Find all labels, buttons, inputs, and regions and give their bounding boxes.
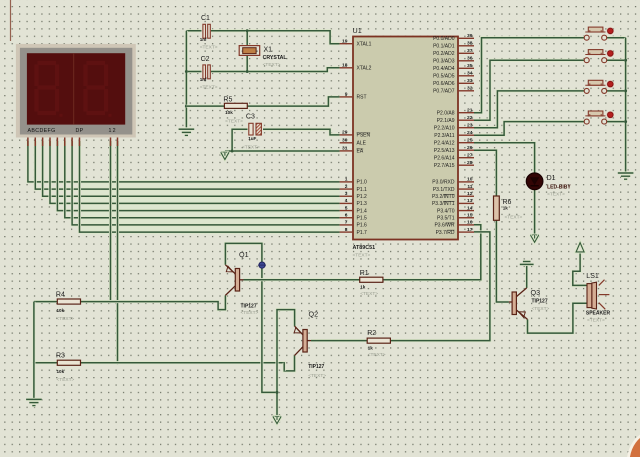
wire R3 left <box>34 361 57 364</box>
svg-text:12: 12 <box>109 128 117 134</box>
wire display common 1 to R4 node <box>109 141 112 302</box>
wire R6 to Q3 base <box>496 220 509 302</box>
LED D1 <box>526 173 571 198</box>
wire C3 left leg <box>232 129 249 151</box>
crystal X1 <box>239 46 287 69</box>
svg-text:4: 4 <box>345 198 348 204</box>
wire R1 right to P3.6 <box>383 225 481 280</box>
node junction pin2 R3 <box>116 361 119 364</box>
svg-text:P2.6/A14: P2.6/A14 <box>434 156 455 162</box>
svg-text:7: 7 <box>345 220 348 226</box>
svg-text:P3.6/WR: P3.6/WR <box>434 223 454 229</box>
wire speaker top to power <box>573 252 587 286</box>
svg-text:R1: R1 <box>360 270 369 277</box>
svg-text:P0.7/AD7: P0.7/AD7 <box>433 89 455 95</box>
wire R5 to RST <box>247 97 339 106</box>
svg-text:P2.3/A11: P2.3/A11 <box>434 133 454 139</box>
push button SW2 <box>584 50 614 63</box>
sheet border edge <box>10 0 12 41</box>
wire button 4 to P2.3 <box>474 122 584 136</box>
svg-text:1uF: 1uF <box>248 136 256 141</box>
svg-text:P3.2/INT0: P3.2/INT0 <box>432 194 455 200</box>
svg-text:30: 30 <box>342 138 348 144</box>
transistor Q1 TIP127 <box>225 250 258 316</box>
svg-text:P0.1/AD1: P0.1/AD1 <box>433 44 455 50</box>
wire P2.5 to R6 <box>474 150 496 196</box>
node junction left rail C2 <box>185 70 188 73</box>
svg-text:Q2: Q2 <box>309 310 319 319</box>
svg-text:P0.3/AD3: P0.3/AD3 <box>433 59 455 65</box>
svg-text:P2.4/A12: P2.4/A12 <box>434 141 455 147</box>
resistor R4 <box>56 292 81 322</box>
push button SW4 <box>584 111 614 124</box>
node junction R3 vertical <box>32 361 35 364</box>
svg-text:13: 13 <box>467 198 473 204</box>
svg-text:P3.3/INT1: P3.3/INT1 <box>432 201 455 207</box>
wire display common 2 to R3 node <box>116 141 119 363</box>
svg-text:18: 18 <box>342 63 348 69</box>
svg-text:27: 27 <box>467 153 473 159</box>
node junction pin1 R4 <box>109 300 112 303</box>
svg-text:1nf: 1nf <box>200 77 207 82</box>
svg-text:ALE: ALE <box>357 141 367 147</box>
push button SW1 <box>584 27 614 40</box>
svg-text:Q3: Q3 <box>531 288 541 297</box>
svg-text:25: 25 <box>467 138 473 144</box>
wire R4 left <box>34 300 57 303</box>
svg-text:8: 8 <box>345 227 348 233</box>
wire EA line <box>225 149 340 152</box>
svg-text:SPEAKER: SPEAKER <box>586 311 611 317</box>
svg-text:6: 6 <box>345 213 348 219</box>
wire Q1 base to R1 <box>244 278 360 281</box>
svg-text:P1.1: P1.1 <box>357 187 368 193</box>
svg-text:<TEXT>: <TEXT> <box>547 192 565 198</box>
wire R4 right to Q1 collector <box>81 295 226 309</box>
resistor R1 <box>360 270 383 297</box>
svg-text:<TEXT>: <TEXT> <box>360 291 378 297</box>
svg-text:P0.6/AD6: P0.6/AD6 <box>433 81 455 87</box>
microcontroller U1 AT89C51 <box>353 26 459 259</box>
svg-text:C2: C2 <box>201 56 210 63</box>
svg-text:17: 17 <box>467 227 473 233</box>
svg-text:5: 5 <box>345 205 348 211</box>
svg-text:R3: R3 <box>56 352 65 359</box>
svg-text:P2.7/A15: P2.7/A15 <box>434 163 455 169</box>
ground G3 button bus <box>618 171 634 174</box>
svg-text:<TEXT>: <TEXT> <box>532 306 550 312</box>
wire Q2 base to R2 <box>311 339 367 342</box>
svg-text:<TEXT>: <TEXT> <box>353 253 371 259</box>
wire display segment E to P1.4 <box>57 141 339 211</box>
svg-text:11: 11 <box>467 184 472 190</box>
watermark logo corner <box>628 433 640 457</box>
svg-text:14: 14 <box>467 205 473 211</box>
svg-text:36: 36 <box>467 56 473 62</box>
svg-text:P2.5/A13: P2.5/A13 <box>434 148 455 154</box>
svg-text:TIP127: TIP127 <box>532 299 548 305</box>
svg-text:<TEXT>: <TEXT> <box>308 373 326 379</box>
svg-text:32: 32 <box>467 86 473 92</box>
display digit 1 segments <box>37 63 63 117</box>
ground G4 above Q3 <box>523 260 531 263</box>
svg-text:P3.1/TXD: P3.1/TXD <box>433 187 455 193</box>
svg-text:1k: 1k <box>503 205 509 210</box>
wire Q3 collector to speaker <box>528 303 588 333</box>
svg-text:P1.2: P1.2 <box>357 194 368 200</box>
wire ground chain capacitors <box>185 31 188 128</box>
wire button 4 right to bus <box>607 120 626 123</box>
svg-text:P0.2/AD2: P0.2/AD2 <box>433 51 455 57</box>
svg-text:37: 37 <box>467 48 473 54</box>
ground G1 below capacitors <box>179 128 195 131</box>
svg-text:P1.3: P1.3 <box>357 201 368 207</box>
svg-text:2: 2 <box>345 184 348 190</box>
svg-text:P3.7/RD: P3.7/RD <box>436 230 455 236</box>
svg-text:D1: D1 <box>547 175 556 182</box>
wire button 3 to P2.2 <box>474 91 584 128</box>
svg-text:23: 23 <box>467 123 473 129</box>
resistor R5 <box>223 97 247 125</box>
wire X1 top stub <box>246 31 249 46</box>
wire button 1 to P2.0 <box>474 38 584 113</box>
svg-text:P3.4/T0: P3.4/T0 <box>437 208 455 214</box>
node junction C3 EA line <box>231 150 234 153</box>
wire R5 left <box>186 105 224 108</box>
wire R2 right to P3.7 <box>390 232 490 341</box>
wire Q3 emitter to ground <box>525 264 528 288</box>
node junction emitter chain <box>276 391 279 394</box>
resistor R6 vertical <box>494 196 523 221</box>
svg-text:P0.5/AD5: P0.5/AD5 <box>433 74 455 80</box>
svg-text:XTAL1: XTAL1 <box>357 42 372 48</box>
svg-text:DP: DP <box>76 128 84 134</box>
display digit 2 segments <box>86 63 112 117</box>
wire R3 right to Q2 collector <box>81 356 295 371</box>
svg-text:22: 22 <box>467 115 473 121</box>
svg-text:12: 12 <box>467 191 473 197</box>
svg-text:TIP127: TIP127 <box>308 364 324 370</box>
wire display segment B to P1.1 <box>35 141 339 189</box>
svg-text:3: 3 <box>345 191 348 197</box>
svg-text:1k: 1k <box>368 345 374 350</box>
svg-text:10: 10 <box>467 177 473 183</box>
svg-text:AT89C51: AT89C51 <box>353 245 376 251</box>
svg-text:33: 33 <box>467 78 473 84</box>
svg-text:16: 16 <box>467 220 473 226</box>
wire C1 to XTAL1 <box>186 31 339 44</box>
svg-text:31: 31 <box>342 146 348 152</box>
wire Q2 collector step <box>283 363 286 371</box>
wire display segment A to P1.0 <box>28 141 340 182</box>
wire D1 cathode down <box>533 190 536 236</box>
svg-text:<TEXT>: <TEXT> <box>242 144 260 150</box>
svg-text:1nf: 1nf <box>200 37 207 42</box>
svg-text:1: 1 <box>345 177 348 183</box>
push button SW3 <box>584 80 614 93</box>
svg-text:TIP127: TIP127 <box>241 303 257 309</box>
svg-text:<TEXT>: <TEXT> <box>200 45 218 51</box>
svg-text:10k: 10k <box>57 369 65 374</box>
capacitor C3 polarized <box>242 114 263 151</box>
wire button 2 to P2.1 <box>474 60 584 120</box>
svg-text:38: 38 <box>467 41 473 47</box>
svg-text:<TEXT>: <TEXT> <box>225 118 243 124</box>
svg-text:EA: EA <box>357 149 364 155</box>
svg-text:XTAL2: XTAL2 <box>357 66 372 72</box>
svg-text:P3.0/RXD: P3.0/RXD <box>432 180 455 186</box>
svg-text:<TEXT>: <TEXT> <box>587 318 605 324</box>
wire resistor ground chain <box>32 302 35 400</box>
svg-text:<TEXT>: <TEXT> <box>241 310 259 316</box>
svg-text:<TEXT>: <TEXT> <box>368 352 386 358</box>
svg-text:15: 15 <box>467 213 473 219</box>
wire button 3 right to bus <box>607 89 626 92</box>
chip right pin stubs and numbers <box>458 37 474 39</box>
wire Q2 emitter loop <box>277 310 295 417</box>
svg-text:R2: R2 <box>367 330 376 337</box>
svg-text:19: 19 <box>342 39 348 45</box>
svg-text:9: 9 <box>345 92 348 98</box>
speaker LS1 <box>586 273 611 324</box>
svg-text:<TEXT>: <TEXT> <box>263 62 281 68</box>
wire display segment D to P1.3 <box>50 141 340 203</box>
svg-text:P0.4/AD4: P0.4/AD4 <box>433 66 455 72</box>
wire display segment G to P1.6 <box>72 141 340 225</box>
svg-text:10k: 10k <box>57 308 65 313</box>
power terminal arrow up <box>576 243 584 252</box>
svg-text:P1.4: P1.4 <box>357 208 368 214</box>
resistor R3 <box>56 352 81 383</box>
wire display segment C to P1.2 <box>43 141 340 196</box>
svg-text:P2.0/A8: P2.0/A8 <box>437 111 455 117</box>
svg-text:RST: RST <box>357 95 367 101</box>
svg-text:X1: X1 <box>264 47 273 54</box>
svg-text:39: 39 <box>467 33 473 39</box>
svg-text:10k: 10k <box>225 110 233 115</box>
svg-text:P1.7: P1.7 <box>357 230 368 236</box>
node junction left rail R5 <box>185 105 188 108</box>
svg-text:<TEXT>: <TEXT> <box>200 84 218 90</box>
svg-text:R5: R5 <box>223 97 232 104</box>
wire button ground bus <box>624 38 627 173</box>
svg-text:P2.2/A10: P2.2/A10 <box>434 126 455 132</box>
svg-text:21: 21 <box>467 108 473 114</box>
svg-text:P1.0: P1.0 <box>357 180 368 186</box>
display pins <box>28 138 118 147</box>
svg-text:P3.5/T1: P3.5/T1 <box>437 216 455 222</box>
svg-text:34: 34 <box>467 71 473 77</box>
wire display segment F to P1.5 <box>65 141 340 218</box>
svg-text:C3: C3 <box>246 114 255 121</box>
svg-text:P1.5: P1.5 <box>357 216 368 222</box>
svg-text:LS1: LS1 <box>586 273 599 280</box>
svg-text:U1: U1 <box>353 26 362 35</box>
svg-text:<TEXT>: <TEXT> <box>505 215 523 221</box>
svg-text:24: 24 <box>467 130 473 136</box>
ground terminal arrow EA line <box>223 151 226 152</box>
svg-text:LED-BIBY: LED-BIBY <box>547 184 571 190</box>
svg-text:C1: C1 <box>201 15 210 22</box>
transistor Q2 TIP127 <box>294 310 326 380</box>
wire P2.4 to D1 <box>474 143 535 173</box>
transistor Q3 TIP127 <box>509 288 550 320</box>
capacitor C1 <box>200 15 218 50</box>
resistor R2 <box>367 330 390 358</box>
svg-text:PSEN: PSEN <box>357 133 371 139</box>
svg-text:<TEXT>: <TEXT> <box>57 316 75 322</box>
svg-text:1k: 1k <box>360 284 366 289</box>
7-segment display frame <box>16 44 136 138</box>
svg-text:ABCDEFG: ABCDEFG <box>28 128 56 134</box>
bus underlay band <box>82 180 340 234</box>
svg-text:<TEXT>: <TEXT> <box>57 377 75 383</box>
ground terminal arrow transistors <box>273 415 281 418</box>
svg-text:P2.1/A9: P2.1/A9 <box>437 118 455 124</box>
svg-text:CRYSTAL: CRYSTAL <box>263 55 288 61</box>
chip left pin stubs and numbers <box>340 43 353 45</box>
svg-text:R4: R4 <box>56 292 65 299</box>
wire button 2 right to bus <box>607 59 626 62</box>
wire X1 bottom stub <box>246 55 249 71</box>
display digit divider <box>73 53 75 124</box>
wire C2 to XTAL2 <box>186 68 339 72</box>
ground G2 below R3 R4 <box>26 398 42 401</box>
svg-text:28: 28 <box>467 160 473 166</box>
svg-text:Q1: Q1 <box>239 250 249 259</box>
node junction C1 rail <box>246 29 249 32</box>
wire C3 to PSEN <box>261 129 339 135</box>
wire display segment DP to P1.7 <box>80 141 340 232</box>
svg-text:29: 29 <box>342 130 348 136</box>
svg-text:P0.0/AD0: P0.0/AD0 <box>433 36 455 42</box>
capacitor C2 <box>200 56 218 90</box>
wire button 1 right to bus <box>607 36 626 39</box>
ground terminal arrow D1 <box>531 234 539 237</box>
wire Q1 emitter loop <box>225 243 277 392</box>
svg-text:35: 35 <box>467 63 473 69</box>
svg-text:P1.6: P1.6 <box>357 223 368 229</box>
svg-text:26: 26 <box>467 145 473 151</box>
probe diamond marker <box>258 262 266 268</box>
node junction C2 rail <box>246 70 249 73</box>
